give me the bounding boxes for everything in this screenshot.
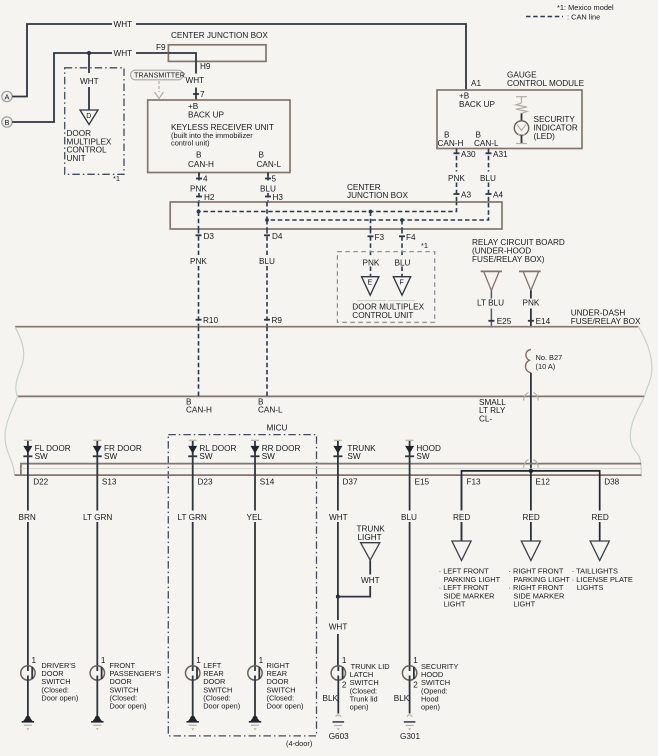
svg-text:S14: S14: [260, 477, 275, 486]
svg-text:CAN-H: CAN-H: [438, 139, 464, 148]
driver's door switch: [21, 656, 79, 719]
wire D23 LT GRN to left rear switch: [192, 475, 194, 666]
break marks at lower edge: [524, 393, 529, 401]
svg-text:LIGHT: LIGHT: [513, 600, 535, 609]
ground at left rear switch: [187, 716, 199, 731]
svg-text:UNIT: UNIT: [67, 154, 86, 163]
svg-text:(4-door): (4-door): [286, 739, 312, 748]
svg-text:D23: D23: [198, 477, 213, 486]
hood sw input arrow: [405, 440, 441, 463]
RL door sw input arrow: [188, 440, 236, 463]
svg-text:SW: SW: [262, 452, 275, 461]
svg-text:LT GRN: LT GRN: [83, 513, 112, 522]
svg-text:A1: A1: [471, 79, 481, 88]
svg-text:A3: A3: [461, 191, 471, 200]
strip interior wires: [27, 464, 29, 476]
svg-text:YEL: YEL: [247, 513, 263, 522]
transmitter dashed arrow: [158, 81, 160, 92]
svg-text:B: B: [444, 131, 450, 140]
svg-text:WHT: WHT: [361, 576, 380, 585]
svg-text:E14: E14: [536, 317, 551, 326]
svg-text:Door open): Door open): [41, 693, 78, 702]
wire S14 YEL to right rear switch: [254, 475, 256, 666]
svg-text:H2: H2: [204, 193, 215, 202]
svg-text:G603: G603: [329, 732, 349, 741]
svg-text:RED: RED: [453, 513, 470, 522]
torn left edge: [5, 327, 24, 475]
left rear door switch: [186, 656, 241, 719]
svg-text:1: 1: [101, 656, 106, 665]
svg-text:CONTROL MODULE: CONTROL MODULE: [507, 79, 585, 88]
svg-text:BLU: BLU: [480, 174, 496, 183]
svg-text:R10: R10: [203, 316, 218, 325]
svg-text:F4: F4: [406, 233, 416, 242]
svg-text:A30: A30: [461, 150, 476, 159]
svg-text:D3: D3: [204, 232, 215, 241]
svg-text:BLU: BLU: [401, 513, 417, 522]
svg-text:WHT: WHT: [329, 513, 348, 522]
door multiplex control unit (top-left, dash-dot): [65, 68, 124, 175]
connector A: [2, 91, 12, 101]
ground G301: [400, 715, 420, 741]
svg-text:E15: E15: [415, 477, 430, 486]
svg-text:1: 1: [342, 656, 347, 665]
junction dots in CJB2: [197, 210, 201, 214]
svg-text:BLU: BLU: [259, 257, 275, 266]
CJB2 drop wires D3 D4 F3 F4: [198, 212, 200, 230]
svg-text:BACK UP: BACK UP: [459, 100, 495, 109]
svg-text:TRANSMITTER: TRANSMITTER: [134, 71, 185, 80]
svg-text:JUNCTION BOX: JUNCTION BOX: [347, 191, 408, 200]
svg-text:WHT: WHT: [80, 77, 99, 86]
triangle terminal D: [80, 110, 98, 125]
taillights arrow: [590, 541, 609, 561]
svg-text:CAN-H: CAN-H: [188, 160, 214, 169]
keyless receiver unit box: [148, 100, 290, 173]
connector strip top edge: [21, 464, 641, 476]
triangle terminal E: [362, 277, 379, 296]
svg-text:2: 2: [342, 681, 347, 690]
svg-text:A: A: [5, 93, 10, 102]
svg-text:RED: RED: [523, 513, 540, 522]
svg-text:PNK: PNK: [363, 259, 380, 268]
svg-text:D37: D37: [343, 477, 358, 486]
svg-text:*1: *1: [421, 241, 428, 250]
wire from B to CJB F9 (WHT): [12, 53, 112, 122]
svg-text:open): open): [350, 703, 369, 712]
wire inside CJB1 to H9: [168, 53, 196, 61]
triangle terminal F: [393, 277, 410, 296]
svg-text:A4: A4: [493, 191, 503, 200]
trunk sw input arrow: [333, 440, 376, 463]
svg-text:*1: Mexico model: *1: Mexico model: [557, 3, 614, 12]
svg-text:2: 2: [413, 681, 418, 690]
RR door sw input arrow: [251, 440, 301, 463]
svg-text:BLU: BLU: [395, 259, 411, 268]
svg-text:A31: A31: [493, 150, 508, 159]
svg-text:WHT: WHT: [329, 623, 348, 632]
svg-text:5: 5: [272, 175, 277, 184]
svg-text:FUSE/RELAY BOX): FUSE/RELAY BOX): [472, 255, 545, 264]
svg-text:D22: D22: [33, 477, 48, 486]
svg-text:G301: G301: [400, 732, 420, 741]
svg-text:Door open): Door open): [110, 702, 147, 711]
svg-text:1: 1: [196, 656, 201, 665]
svg-text:B: B: [5, 118, 10, 127]
connector B: [2, 117, 12, 127]
svg-text:CAN-L: CAN-L: [474, 139, 499, 148]
svg-text:1: 1: [413, 656, 418, 665]
wires R10/R9 CAN inside under-dash box: [198, 327, 200, 397]
wire junction down to door multiplex D: [88, 53, 90, 73]
svg-text:CAN-L: CAN-L: [257, 160, 282, 169]
under-dash fuse/relay box upper edge: [15, 326, 638, 328]
svg-text:S13: S13: [102, 477, 117, 486]
svg-text:BLK: BLK: [394, 694, 410, 703]
wire pin4 PNK to H2: [198, 173, 200, 177]
security hood switch: [394, 656, 459, 714]
svg-text:BACK UP: BACK UP: [188, 110, 224, 119]
security indicator resistor (light): [516, 96, 527, 98]
svg-text:: CAN line: : CAN line: [567, 13, 600, 22]
svg-text:RED: RED: [592, 513, 609, 522]
svg-text:R9: R9: [272, 316, 283, 325]
CAN-H bus inside CJB2: [199, 202, 457, 212]
relay board terminal LT BLU: [481, 270, 502, 272]
svg-text:E12: E12: [535, 477, 550, 486]
svg-text:CAN-L: CAN-L: [258, 405, 283, 414]
wire E15 BLU to security hood switch: [409, 475, 411, 666]
svg-text:LIGHT: LIGHT: [358, 533, 382, 542]
svg-text:CONTROL UNIT: CONTROL UNIT: [352, 311, 413, 320]
svg-text:B: B: [476, 131, 482, 140]
svg-text:F9: F9: [156, 43, 166, 52]
svg-text:B: B: [259, 151, 265, 160]
ground at right rear switch: [249, 716, 261, 731]
trunk light branch: [338, 560, 370, 596]
wire from A to gauge A1 (WHT): [12, 24, 112, 97]
svg-text:Door open): Door open): [203, 702, 240, 711]
wire D22 BRN to driver's door switch: [27, 475, 29, 666]
under-dash fuse/relay box lower edge: [18, 395, 645, 397]
svg-text:F3: F3: [375, 233, 385, 242]
trunk lid latch switch: [323, 656, 390, 714]
svg-text:CAN-H: CAN-H: [186, 405, 212, 414]
junction dot trunk light branch: [336, 595, 340, 599]
transmitter balloon: [131, 70, 184, 80]
svg-text:1: 1: [259, 656, 264, 665]
svg-text:SW: SW: [199, 452, 212, 461]
ground G603: [329, 715, 349, 741]
wire E14 through box to junction: [530, 373, 532, 471]
wire PNK to E14: [530, 291, 532, 327]
wire F4 BLU into door multiplex 2: [401, 229, 403, 277]
wire F3 PNK into door multiplex 2: [370, 229, 372, 277]
svg-text:MICU: MICU: [267, 424, 288, 433]
svg-text:LT BLU: LT BLU: [477, 299, 504, 308]
CAN-L bus inside CJB2: [267, 202, 489, 220]
svg-text:SW: SW: [347, 452, 360, 461]
FR door sw input arrow: [93, 440, 142, 463]
svg-text:CL-: CL-: [479, 414, 492, 423]
svg-text:PNK: PNK: [523, 299, 540, 308]
svg-text:LIGHTS: LIGHTS: [577, 583, 604, 592]
svg-text:SW: SW: [35, 452, 48, 461]
wire F13 RED to left front lights: [461, 475, 463, 541]
svg-text:PNK: PNK: [190, 257, 207, 266]
security indicator LED U1: [521, 113, 523, 120]
svg-text:LT GRN: LT GRN: [178, 513, 207, 522]
svg-text:4: 4: [203, 175, 208, 184]
torn right edge: [630, 327, 652, 477]
svg-text:D: D: [86, 113, 91, 120]
svg-text:1: 1: [32, 656, 37, 665]
svg-text:BRN: BRN: [19, 513, 36, 522]
wire LT BLU to E25: [490, 291, 492, 327]
right rear door switch: [248, 656, 304, 719]
FL door sw input arrow: [23, 440, 70, 463]
wire A30 PNK to A3: [456, 149, 458, 203]
left front lights arrow: [452, 541, 471, 561]
junction dot bus/E14: [529, 469, 533, 473]
wire A31 BLU to A4: [488, 149, 490, 203]
svg-text:PNK: PNK: [448, 174, 465, 183]
svg-text:BLK: BLK: [323, 694, 339, 703]
junction dot on B wire: [87, 51, 91, 55]
svg-text:open): open): [421, 703, 440, 712]
wire D37 WHT to trunk latch switch: [337, 475, 339, 596]
svg-text:D4: D4: [272, 232, 283, 241]
wire to trunk switch pin 1: [337, 597, 339, 667]
wire D4 BLU down to under-dash R9: [266, 229, 268, 327]
wire S13 LT GRN to front passenger's switch: [96, 475, 98, 666]
svg-text:control unit): control unit): [171, 139, 210, 148]
svg-text:H3: H3: [273, 193, 284, 202]
svg-text:(LED): (LED): [534, 132, 556, 141]
relay board terminal PNK: [519, 270, 541, 272]
svg-text:WHT: WHT: [186, 76, 205, 85]
svg-text:FUSE/RELAY BOX: FUSE/RELAY BOX: [571, 317, 641, 326]
svg-text:(10 A): (10 A): [536, 362, 556, 371]
svg-text:E25: E25: [497, 317, 512, 326]
svg-text:B: B: [196, 151, 202, 160]
svg-text:SW: SW: [416, 452, 429, 461]
svg-text:E: E: [368, 280, 373, 287]
wire H9 down to keyless pin 7 (WHT): [195, 61, 197, 100]
front passenger's door switch: [90, 656, 161, 719]
wire D3 PNK down to under-dash R10: [198, 229, 200, 327]
svg-text:F13: F13: [467, 477, 482, 486]
power bus in strip: [462, 471, 600, 541]
svg-text:7: 7: [200, 90, 205, 99]
svg-text:No. B27: No. B27: [536, 353, 563, 362]
right front lights arrow: [521, 541, 540, 561]
wire E12 down: [530, 471, 532, 541]
fuse No. B27: [525, 350, 530, 373]
svg-text:LIGHT: LIGHT: [444, 600, 466, 609]
wire pin5 BLU to H3: [267, 173, 269, 177]
svg-text:H9: H9: [200, 62, 211, 71]
svg-text:CENTER JUNCTION BOX: CENTER JUNCTION BOX: [171, 31, 268, 40]
legend: CAN line sample: [526, 16, 563, 18]
svg-text:WHT: WHT: [114, 20, 133, 29]
break marks at strip top: [524, 460, 529, 468]
svg-text:*1: *1: [113, 174, 120, 183]
svg-text:F: F: [400, 280, 404, 287]
svg-text:Door open): Door open): [267, 702, 304, 711]
svg-text:WHT: WHT: [114, 49, 133, 58]
ground at driver's switch: [22, 716, 34, 731]
svg-text:D38: D38: [604, 477, 619, 486]
ground at front passenger's switch: [91, 716, 103, 731]
svg-text:SW: SW: [104, 452, 117, 461]
connector strip bottom edge: [15, 474, 642, 476]
